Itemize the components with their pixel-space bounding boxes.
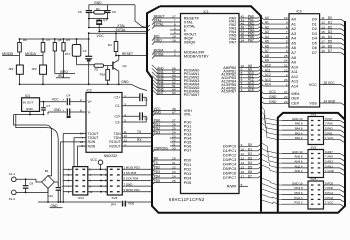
svg-text:JP4: JP4 — [111, 202, 117, 206]
svg-text:PA7: PA7 — [229, 40, 236, 44]
svg-text:IC2: IC2 — [87, 89, 92, 93]
svg-text:D5: D5 — [312, 41, 317, 45]
svg-text:XIRQ: XIRQ — [60, 70, 68, 74]
wire IRQ net stub — [63, 51, 65, 78]
svg-text:D6: D6 — [328, 44, 332, 48]
svg-text:9 PA7: 9 PA7 — [325, 117, 333, 121]
wire EXTAL bus tick — [147, 29, 150, 31]
wire crystal node — [89, 18, 108, 20]
svg-text:1 MOSI PD3: 1 MOSI PD3 — [124, 166, 141, 170]
svg-text:20: 20 — [284, 100, 288, 104]
svg-text:68HC11F1CFN2: 68HC11F1CFN2 — [169, 197, 205, 202]
svg-text:D1: D1 — [248, 147, 252, 151]
capacitor C2 — [122, 115, 139, 117]
svg-text:8: 8 — [286, 25, 288, 29]
svg-text:GND 10: GND 10 — [292, 150, 303, 154]
svg-text:D1: D1 — [312, 22, 317, 26]
svg-text:15: 15 — [321, 30, 325, 34]
svg-text:B1: B1 — [45, 169, 49, 173]
svg-text:22: 22 — [172, 166, 176, 170]
svg-text:MAX232: MAX232 — [104, 154, 117, 158]
svg-text:13: 13 — [321, 25, 325, 29]
wire XTAL row — [88, 13, 90, 28]
svg-text:Q1: Q1 — [103, 18, 107, 22]
svg-text:PD4: PD4 — [184, 176, 191, 180]
wire ground rail bottom — [38, 201, 121, 203]
svg-text:RX: RX — [154, 157, 159, 161]
svg-text:D2/PC2: D2/PC2 — [223, 154, 236, 158]
svg-text:D3: D3 — [248, 156, 252, 160]
svg-text:C2: C2 — [144, 117, 148, 121]
svg-text:C1-: C1- — [115, 104, 120, 108]
capacitor C5 — [104, 10, 110, 12]
wire R2OUT to bus — [122, 145, 152, 147]
svg-text:D7: D7 — [328, 49, 332, 53]
wire VCC rail mid — [89, 32, 148, 34]
svg-text:MODA: MODA — [25, 52, 36, 56]
wire bundle from address bus to headers — [261, 106, 282, 121]
svg-text:A7: A7 — [291, 51, 296, 55]
svg-text:AN7: AN7 — [157, 91, 164, 95]
svg-text:IN OUT: IN OUT — [23, 101, 34, 105]
svg-text:PG3: PG3 — [154, 131, 161, 135]
svg-text:16: 16 — [241, 170, 245, 174]
svg-text:AN2 4: AN2 4 — [294, 164, 302, 168]
svg-text:IC3: IC3 — [297, 10, 302, 14]
header SV3 — [308, 181, 324, 209]
svg-text:A11: A11 — [291, 70, 297, 74]
svg-text:16: 16 — [321, 35, 325, 39]
svg-text:D2: D2 — [328, 25, 332, 29]
wire EXTAL row — [99, 31, 147, 33]
svg-text:PG7: PG7 — [184, 148, 192, 152]
svg-text:A0: A0 — [291, 18, 296, 22]
svg-text:D5: D5 — [248, 165, 252, 169]
svg-text:GND: GND — [51, 204, 59, 208]
svg-text:V-: V- — [88, 110, 91, 114]
svg-text:18: 18 — [172, 39, 176, 43]
svg-text:PG0 2: PG0 2 — [294, 201, 303, 205]
svg-text:24: 24 — [172, 175, 176, 179]
header SV4 — [73, 167, 88, 195]
wire V+ row with pin 2 — [70, 101, 86, 103]
svg-text:SV4: SV4 — [78, 196, 84, 200]
svg-text:D6: D6 — [312, 46, 317, 50]
svg-text:12: 12 — [321, 21, 325, 25]
svg-text:A13: A13 — [265, 78, 271, 82]
svg-text:9: 9 — [241, 143, 243, 147]
header SV1 — [308, 117, 324, 145]
svg-text:25: 25 — [172, 179, 176, 183]
wire T2IN to bus — [122, 137, 152, 139]
wire VCC to pullup rail — [88, 33, 90, 39]
svg-text:A6: A6 — [265, 44, 269, 48]
wire MODA net — [42, 52, 44, 65]
svg-text:C5: C5 — [112, 10, 116, 14]
svg-text:12: 12 — [241, 156, 245, 160]
jumper JP1 — [72, 45, 81, 57]
wire T1OUT to SV column — [63, 133, 86, 135]
svg-text:9 AN7: 9 AN7 — [325, 150, 333, 154]
svg-text:A10: A10 — [265, 64, 271, 68]
svg-text:SV1: SV1 — [311, 112, 317, 116]
svg-text:PD3: PD3 — [154, 170, 161, 174]
microcontroller IC1 box — [181, 14, 240, 194]
IC1 right pin rows PB address — [239, 67, 258, 69]
wire regulator GND node — [29, 111, 31, 114]
svg-text:PA0 2: PA0 2 — [295, 136, 303, 140]
svg-text:1 GND: 1 GND — [325, 169, 334, 173]
svg-text:+: + — [62, 108, 64, 112]
svg-text:A9: A9 — [291, 61, 296, 65]
svg-text:EXTAL: EXTAL — [154, 23, 164, 27]
svg-text:D2: D2 — [248, 152, 252, 156]
svg-text:D7: D7 — [312, 51, 317, 55]
svg-text:11: 11 — [241, 152, 244, 156]
svg-text:21: 21 — [172, 161, 176, 165]
svg-text:A4: A4 — [265, 35, 269, 39]
svg-text:6: 6 — [80, 108, 82, 112]
svg-text:VSS: VSS — [309, 101, 317, 105]
svg-text:D4/PC4: D4/PC4 — [223, 163, 236, 167]
resistor R5 — [63, 39, 65, 43]
svg-text:JP3: JP3 — [31, 67, 37, 71]
wire from bridge to regulator outer arch — [16, 115, 58, 186]
svg-text:VCC: VCC — [97, 34, 105, 38]
IC1 right pin rows PC data — [239, 145, 258, 147]
svg-text:1: 1 — [286, 83, 288, 87]
svg-text:R8: R8 — [58, 38, 62, 42]
svg-text:GND: GND — [269, 95, 277, 99]
svg-text:2: 2 — [80, 98, 82, 102]
svg-text:C6: C6 — [78, 10, 82, 14]
svg-text:PD1: PD1 — [184, 163, 191, 167]
svg-text:R2IN: R2IN — [88, 144, 96, 148]
bus outline around expansion headers — [278, 113, 345, 213]
svg-text:A9: A9 — [265, 59, 269, 63]
svg-text:A14: A14 — [291, 84, 298, 88]
svg-text:-: - — [49, 184, 50, 188]
jumper JP3 — [40, 65, 47, 74]
svg-text:7 PD0: 7 PD0 — [325, 186, 333, 190]
svg-text:MODB/VSTBY: MODB/VSTBY — [184, 54, 209, 58]
svg-text:+: + — [61, 184, 63, 188]
capacitor C1 — [122, 96, 139, 98]
wire R1IN down — [60, 141, 86, 143]
svg-text:PD5: PD5 — [129, 201, 135, 205]
svg-text:D0: D0 — [248, 143, 252, 147]
svg-text:OE#: OE# — [291, 97, 299, 101]
wire R2IN down — [78, 145, 87, 147]
wire regulator ground node line — [14, 114, 44, 116]
svg-text:4: 4 — [286, 44, 288, 48]
svg-text:9: 9 — [286, 21, 288, 25]
svg-text:5: 5 — [286, 40, 288, 44]
wire V- row with pin 6 — [70, 111, 86, 113]
svg-text:D2: D2 — [312, 27, 317, 31]
wire bridge top to regulator branch — [48, 175, 52, 177]
svg-text:D6/PC6: D6/PC6 — [223, 172, 236, 176]
svg-text:26: 26 — [284, 78, 288, 82]
svg-text:D0: D0 — [312, 18, 317, 22]
svg-text:VCC: VCC — [52, 97, 60, 101]
jumper JP2 — [16, 65, 23, 74]
svg-text:10: 10 — [241, 147, 245, 151]
svg-text:PE7/AN7: PE7/AN7 — [184, 93, 200, 97]
header SV2 — [308, 150, 324, 178]
wire bridge bottom to ground — [47, 188, 49, 202]
svg-text:D1: D1 — [328, 21, 332, 25]
svg-text:C7: C7 — [46, 104, 50, 108]
svg-text:WE#: WE# — [291, 92, 300, 96]
svg-text:C3: C3 — [83, 49, 87, 53]
svg-text:PD5: PD5 — [154, 179, 161, 183]
wire X1-1 to bridge — [16, 179, 41, 182]
svg-text:A15: A15 — [248, 88, 254, 92]
svg-text:R/W#: R/W# — [227, 185, 237, 189]
svg-text:A2: A2 — [265, 25, 269, 29]
svg-text:17: 17 — [321, 40, 325, 44]
svg-text:23: 23 — [284, 68, 288, 72]
svg-text:A1: A1 — [291, 22, 296, 26]
svg-text:R7: R7 — [47, 38, 51, 42]
wire GND rail top — [89, 4, 136, 6]
svg-text:2: 2 — [174, 53, 176, 57]
svg-text:PD4: PD4 — [154, 175, 161, 179]
svg-text:3: 3 — [286, 49, 288, 53]
svg-text:20: 20 — [172, 147, 176, 151]
svg-text:A0: A0 — [265, 16, 269, 20]
svg-text:9 PD5: 9 PD5 — [325, 181, 333, 185]
svg-text:19: 19 — [321, 49, 325, 53]
svg-text:A15/PB7: A15/PB7 — [221, 90, 236, 94]
svg-text:7: 7 — [286, 30, 288, 34]
svg-text:27: 27 — [284, 90, 288, 94]
svg-text:PA7: PA7 — [248, 39, 254, 43]
wire VCC rail top-left — [20, 38, 89, 40]
svg-text:XIRQ: XIRQ — [154, 39, 162, 43]
svg-text:D4: D4 — [248, 161, 252, 165]
svg-text:24: 24 — [284, 59, 288, 63]
resistor R6 — [19, 39, 21, 43]
svg-text:A6: A6 — [291, 46, 296, 50]
svg-text:VCC: VCC — [90, 158, 97, 162]
svg-text:IRQ: IRQ — [58, 74, 64, 78]
svg-text:D5/PC5: D5/PC5 — [223, 167, 236, 171]
svg-text:D7: D7 — [248, 174, 252, 178]
svg-text:D3: D3 — [312, 32, 317, 36]
svg-text:21: 21 — [284, 64, 288, 68]
wire RX to bus — [122, 141, 152, 143]
wire JP3 to ground rail — [42, 74, 44, 84]
svg-text:18: 18 — [321, 44, 325, 48]
svg-text:D4: D4 — [328, 35, 332, 39]
wire T2OUT down — [74, 137, 86, 139]
svg-text:PA6 8: PA6 8 — [295, 122, 303, 126]
svg-text:PD5: PD5 — [184, 181, 191, 185]
svg-text:A3: A3 — [291, 32, 296, 36]
svg-text:3 SS PD5: 3 SS PD5 — [124, 171, 137, 175]
svg-text:15: 15 — [241, 165, 245, 169]
svg-text:1 VCC: 1 VCC — [325, 136, 334, 140]
svg-text:3 PG0: 3 PG0 — [325, 196, 334, 200]
svg-text:PD2 6: PD2 6 — [294, 191, 302, 195]
wire MODB net — [19, 52, 21, 65]
svg-text:A14: A14 — [265, 83, 271, 87]
svg-text:C1+: C1+ — [114, 96, 120, 100]
svg-text:A5: A5 — [291, 41, 296, 45]
svg-text:GND 10: GND 10 — [292, 117, 303, 121]
svg-text:11: 11 — [321, 16, 324, 20]
header SV5 — [107, 167, 122, 195]
svg-text:PD2: PD2 — [184, 167, 191, 171]
svg-text:VRL: VRL — [184, 112, 191, 116]
svg-text:SV5: SV5 — [112, 196, 118, 200]
svg-text:A7: A7 — [265, 49, 269, 53]
svg-text:VCC: VCC — [269, 90, 277, 94]
svg-text:AN4 6: AN4 6 — [294, 160, 302, 164]
svg-text:28 VCC: 28 VCC — [324, 81, 336, 85]
svg-text:+: + — [44, 178, 46, 182]
svg-text:A11: A11 — [265, 68, 271, 72]
svg-text:AN6 8: AN6 8 — [294, 155, 302, 159]
svg-text:VCC: VCC — [309, 83, 317, 87]
svg-text:GND: GND — [154, 111, 162, 115]
svg-text:A8: A8 — [265, 54, 269, 58]
svg-text:A10: A10 — [291, 65, 298, 69]
svg-text:AN0 2: AN0 2 — [294, 169, 302, 173]
svg-text:PG2 4: PG2 4 — [294, 196, 303, 200]
svg-text:GND: GND — [269, 100, 277, 104]
svg-text:7 GND: 7 GND — [124, 182, 133, 186]
svg-text:EXTAL: EXTAL — [116, 28, 126, 32]
resistor R2 — [94, 64, 104, 67]
op-amp IC2 MAX232 box — [86, 93, 122, 153]
svg-text:3: 3 — [241, 88, 243, 92]
svg-text:D4: D4 — [312, 37, 317, 41]
svg-text:7 PA5: 7 PA5 — [325, 122, 333, 126]
svg-text:5 PA3: 5 PA3 — [325, 127, 333, 131]
svg-text:JP2: JP2 — [8, 67, 14, 71]
svg-text:A3: A3 — [265, 30, 269, 34]
wire regulator OUT to VCC — [40, 101, 44, 103]
svg-text:D6: D6 — [248, 170, 252, 174]
wire ground rail left — [20, 83, 132, 85]
IC1 left pin rows — [154, 17, 181, 19]
svg-text:SV2: SV2 — [311, 145, 317, 149]
svg-text:JP1: JP1 — [65, 52, 71, 56]
svg-text:A4: A4 — [291, 37, 296, 41]
svg-text:67: 67 — [172, 111, 176, 115]
svg-text:6: 6 — [286, 35, 288, 39]
svg-text:C1: C1 — [144, 98, 148, 102]
svg-text:34: 34 — [241, 39, 245, 43]
svg-text:CE#: CE# — [291, 102, 299, 106]
wire bridge right to C10 — [54, 181, 58, 183]
wire JP2 to ground rail — [19, 74, 21, 84]
svg-text:X1-1: X1-1 — [9, 172, 16, 176]
wire X1-2 to bridge — [16, 188, 48, 192]
svg-text:3 AN1: 3 AN1 — [325, 164, 333, 168]
svg-text:C8: C8 — [29, 181, 33, 185]
svg-text:22: 22 — [284, 95, 288, 99]
svg-text:PA4 6: PA4 6 — [295, 127, 303, 131]
svg-text:R5: R5 — [66, 38, 70, 42]
svg-text:R4: R4 — [108, 43, 112, 47]
resistor R7 — [42, 39, 44, 43]
wire JP1 top — [76, 39, 78, 45]
IC3 VSS pin — [320, 102, 341, 104]
svg-text:A1: A1 — [265, 21, 269, 25]
wire RESET row — [115, 52, 117, 56]
wire JP1 bottom to R2 — [76, 56, 78, 65]
svg-text:D0: D0 — [328, 16, 332, 20]
svg-text:1 VCC: 1 VCC — [325, 201, 334, 205]
svg-text:5 SCK PD4: 5 SCK PD4 — [124, 177, 139, 181]
IC3 left address rows — [264, 18, 290, 20]
svg-text:3 PA1: 3 PA1 — [325, 131, 333, 135]
svg-text:SV3: SV3 — [311, 177, 317, 181]
crystal Q1 — [98, 19, 100, 21]
svg-text:RX: RX — [137, 138, 142, 142]
IC1 pin R/W — [239, 185, 248, 187]
svg-text:MODB: MODB — [154, 53, 165, 57]
wire SV5 right rows to bus — [122, 168, 152, 170]
svg-text:GND 10: GND 10 — [292, 181, 303, 185]
resistor R8 — [54, 39, 56, 43]
svg-text:7 AN5: 7 AN5 — [325, 155, 333, 159]
svg-text:C2+: C2+ — [114, 115, 120, 119]
svg-text:9 MISO PD2: 9 MISO PD2 — [124, 188, 141, 192]
svg-text:XIRQ#: XIRQ# — [184, 40, 196, 44]
bus outline top and middle address bus — [160, 6, 261, 212]
wire rows between SV4 and SV5 — [88, 168, 108, 170]
svg-text:A13: A13 — [291, 80, 298, 84]
svg-text:13: 13 — [241, 161, 245, 165]
svg-text:D3: D3 — [328, 30, 332, 34]
svg-text:A8: A8 — [291, 56, 296, 60]
svg-text:17: 17 — [241, 174, 245, 178]
svg-text:C4: C4 — [66, 94, 70, 98]
svg-text:IC1: IC1 — [204, 10, 209, 14]
svg-text:D5: D5 — [328, 40, 332, 44]
IC3 VCC pin — [320, 84, 341, 86]
svg-text:D1/PC1: D1/PC1 — [223, 149, 236, 153]
svg-text:D3/PC3: D3/PC3 — [223, 158, 236, 162]
svg-text:Q2: Q2 — [123, 64, 127, 68]
svg-text:PD0: PD0 — [184, 158, 191, 162]
svg-text:2: 2 — [286, 73, 288, 77]
svg-text:D0/PC0: D0/PC0 — [223, 145, 236, 149]
transistor Q2 — [112, 62, 114, 70]
wire TX to bus — [122, 133, 152, 135]
svg-text:23: 23 — [172, 170, 176, 174]
svg-text:V+: V+ — [88, 100, 92, 104]
svg-text:R6: R6 — [23, 38, 27, 42]
svg-text:10: 10 — [284, 16, 288, 20]
terminal X1-2 — [12, 190, 17, 195]
memory IC3 box — [289, 14, 320, 107]
svg-text:R10: R10 — [100, 73, 106, 77]
svg-text:GND: GND — [54, 108, 62, 112]
svg-text:GND: GND — [121, 80, 129, 84]
svg-text:A2: A2 — [291, 27, 296, 31]
wire XIRQ net stub — [54, 51, 56, 74]
IC1 right pin rows PA — [239, 17, 258, 19]
svg-text:+: + — [62, 98, 64, 102]
svg-text:GND: GND — [26, 107, 34, 111]
svg-text:25: 25 — [284, 54, 288, 58]
